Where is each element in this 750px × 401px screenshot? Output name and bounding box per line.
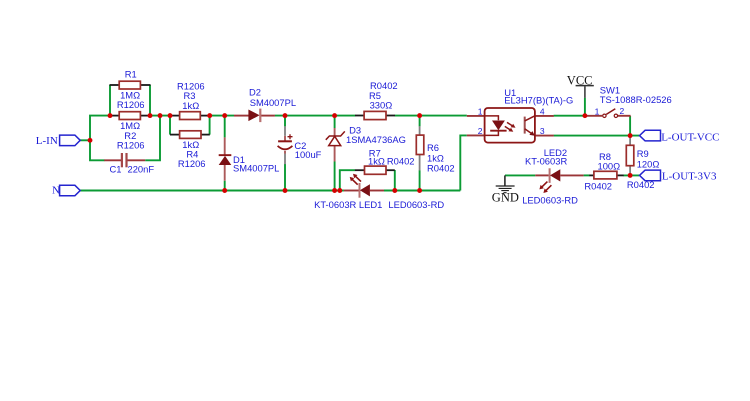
svg-text:LED0603-RD: LED0603-RD bbox=[522, 195, 578, 206]
svg-text:R0402: R0402 bbox=[627, 179, 655, 190]
svg-text:330Ω: 330Ω bbox=[370, 100, 393, 111]
svg-text:3: 3 bbox=[540, 126, 545, 136]
svg-text:100Ω: 100Ω bbox=[598, 161, 621, 172]
svg-text:R1206: R1206 bbox=[117, 139, 145, 150]
svg-text:KT-0603R LED1: KT-0603R LED1 bbox=[314, 199, 382, 210]
svg-text:1kΩ: 1kΩ bbox=[368, 155, 385, 166]
svg-text:2: 2 bbox=[620, 106, 625, 116]
svg-text:1kΩ: 1kΩ bbox=[182, 100, 199, 111]
svg-text:R0402: R0402 bbox=[387, 155, 415, 166]
svg-text:2: 2 bbox=[478, 126, 483, 136]
svg-text:LED0603-RD: LED0603-RD bbox=[388, 199, 444, 210]
svg-text:EL3H7(B)(TA)-G: EL3H7(B)(TA)-G bbox=[504, 95, 573, 106]
svg-text:GND: GND bbox=[492, 191, 519, 205]
svg-text:R0402: R0402 bbox=[427, 163, 455, 174]
svg-text:VCC: VCC bbox=[567, 74, 593, 88]
svg-text:SM4007PL: SM4007PL bbox=[250, 97, 296, 108]
svg-text:SM4007PL: SM4007PL bbox=[233, 162, 279, 173]
svg-text:1: 1 bbox=[478, 107, 483, 117]
svg-text:L-OUT-3V3: L-OUT-3V3 bbox=[662, 171, 717, 183]
svg-text:120Ω: 120Ω bbox=[637, 158, 660, 169]
svg-text:TS-1088R-02526: TS-1088R-02526 bbox=[600, 94, 672, 105]
svg-text:L-IN: L-IN bbox=[36, 135, 58, 147]
svg-text:C1: C1 bbox=[110, 163, 122, 174]
svg-text:R1: R1 bbox=[125, 69, 137, 80]
svg-text:R0402: R0402 bbox=[584, 180, 612, 191]
svg-text:220nF: 220nF bbox=[128, 163, 155, 174]
svg-text:1: 1 bbox=[595, 106, 600, 116]
svg-text:4: 4 bbox=[540, 107, 545, 117]
svg-text:R1206: R1206 bbox=[117, 99, 145, 110]
svg-text:N: N bbox=[52, 185, 60, 197]
svg-text:L-OUT-VCC: L-OUT-VCC bbox=[661, 131, 719, 143]
svg-text:KT-0603R: KT-0603R bbox=[525, 155, 567, 166]
svg-text:1SMA4736AG: 1SMA4736AG bbox=[346, 134, 406, 145]
svg-text:100uF: 100uF bbox=[295, 149, 322, 160]
svg-text:R1206: R1206 bbox=[178, 158, 206, 169]
